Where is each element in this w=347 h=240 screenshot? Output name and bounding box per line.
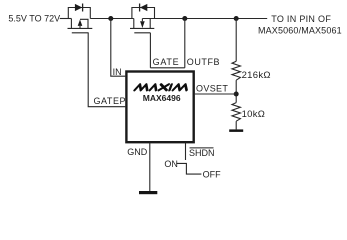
svg-text:GATEP: GATEP (94, 96, 127, 106)
transistor Q1 bulk arrow (78, 20, 83, 29)
svg-text:IN: IN (113, 67, 122, 77)
transistor Q1 body-diode loop (68, 8, 90, 19)
U1 logo MAXIM (135, 84, 189, 90)
diode D1 (Q1 body diode) (75, 4, 83, 12)
transistor Q1 bulk connection (80, 19, 88, 28)
ground GND1 bar (139, 191, 157, 194)
transistor Q2 channel bar (130, 27, 154, 29)
wire OUTFB pin (184, 19, 186, 68)
transistor Q2 gate plate (134, 32, 150, 34)
wire input to Q1 drain (60, 18, 72, 20)
wire GND pin to ground (149, 143, 151, 191)
wire Q1 gate to GATEP (88, 33, 125, 107)
transistor Q1 gate plate (72, 32, 89, 34)
wire IN pin (111, 19, 126, 77)
switch SW1 ON/OFF (176, 163, 201, 174)
node junction dot divider top (234, 16, 239, 21)
wire R2 to ground (235, 121, 237, 129)
svg-text:216kΩ: 216kΩ (242, 70, 271, 81)
SHDN overline (190, 147, 214, 149)
svg-text:OVSET: OVSET (196, 84, 228, 94)
svg-text:GND: GND (127, 147, 148, 157)
node junction dot OUTFB (182, 16, 187, 21)
transistor Q1 drain lead (70, 19, 72, 29)
transistor Q1 channel bar (68, 27, 93, 29)
svg-text:SHDN: SHDN (189, 148, 215, 158)
wire to resistor R1 (235, 19, 237, 62)
svg-text:MAX5060/MAX5061: MAX5060/MAX5061 (258, 26, 342, 36)
transistor Q2 bulk arrow (140, 19, 145, 29)
node junction dot OVSET (234, 92, 239, 97)
svg-text:GATE: GATE (153, 57, 180, 67)
node junction dot IN (108, 16, 113, 21)
svg-text:MAX6496: MAX6496 (143, 93, 181, 103)
svg-text:OUTFB: OUTFB (187, 57, 220, 67)
diode D2 (Q2 body diode) (140, 4, 148, 12)
ground GND2 bar (229, 129, 243, 132)
svg-text:5.5V TO 72V: 5.5V TO 72V (8, 14, 60, 24)
transistor Q2 body-diode loop (132, 8, 155, 19)
wire SHDN pin (185, 143, 187, 160)
wire GATE pin stub (150, 67, 184, 69)
transistor Q2 drain lead (149, 19, 151, 29)
wire Q1 source to Q2 (90, 18, 134, 20)
wire R1 to divider node (235, 80, 237, 102)
resistor R1 216k (232, 61, 240, 80)
wire OVSET pin (195, 93, 236, 95)
svg-text:TO IN PIN OF: TO IN PIN OF (271, 14, 331, 24)
svg-text:OFF: OFF (203, 169, 221, 179)
wire main line to output (142, 18, 267, 20)
wire Q2 gate to GATE pin (149, 33, 151, 68)
IC U1 MAX6496 box (126, 72, 193, 143)
svg-text:ON: ON (164, 159, 178, 169)
transistor Q2 source lead (133, 19, 135, 29)
svg-text:10kΩ: 10kΩ (242, 109, 266, 120)
resistor R2 10k (232, 103, 240, 122)
